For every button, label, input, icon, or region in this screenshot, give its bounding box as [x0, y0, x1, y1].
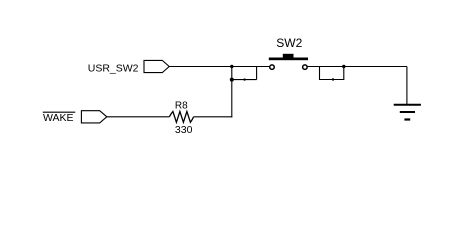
- net label WAKE (active low, overbar): [43, 112, 76, 124]
- off-page connector port for USR_SW2: [144, 60, 169, 72]
- junction node at bottom-left of pin strap: [230, 78, 234, 82]
- ground symbol: [394, 105, 421, 120]
- pin junction dot on right strap bottom: [332, 78, 334, 80]
- wire vertical drop to ground: [406, 67, 408, 105]
- wire from WAKE port to resistor R8: [107, 116, 170, 118]
- switch SW2 right contact circle: [303, 65, 308, 70]
- wire right pin strap left vertical: [319, 67, 321, 80]
- switch SW2 button cap: [283, 54, 294, 58]
- wire from resistor R8 to riser corner: [194, 116, 233, 118]
- wire left pin strap right vertical: [256, 67, 258, 80]
- wire left pin strap bottom: [232, 79, 257, 81]
- svg-text:R8: R8: [175, 100, 188, 111]
- wire vertical from top junction down to resistor row: [231, 67, 233, 118]
- wire from USR_SW2 port to switch left contact: [169, 66, 269, 68]
- wire right pin strap bottom: [319, 79, 344, 81]
- svg-text:SW2: SW2: [276, 36, 302, 50]
- svg-text:USR_SW2: USR_SW2: [88, 62, 139, 74]
- resistor R8 zigzag body: [169, 112, 193, 123]
- svg-text:WAKE: WAKE: [43, 112, 74, 124]
- wire from switch right contact across right pin strap: [308, 66, 407, 68]
- switch SW2 actuator bar: [269, 58, 308, 61]
- off-page connector port for WAKE: [81, 111, 106, 123]
- junction node at top of left pin strap: [230, 65, 233, 68]
- pin junction dot on left strap bottom: [243, 78, 245, 80]
- junction node at top of right pin strap: [342, 65, 345, 68]
- switch SW2 left contact circle: [270, 65, 275, 70]
- wire right pin strap right vertical: [343, 67, 345, 80]
- svg-text:330: 330: [175, 124, 193, 136]
